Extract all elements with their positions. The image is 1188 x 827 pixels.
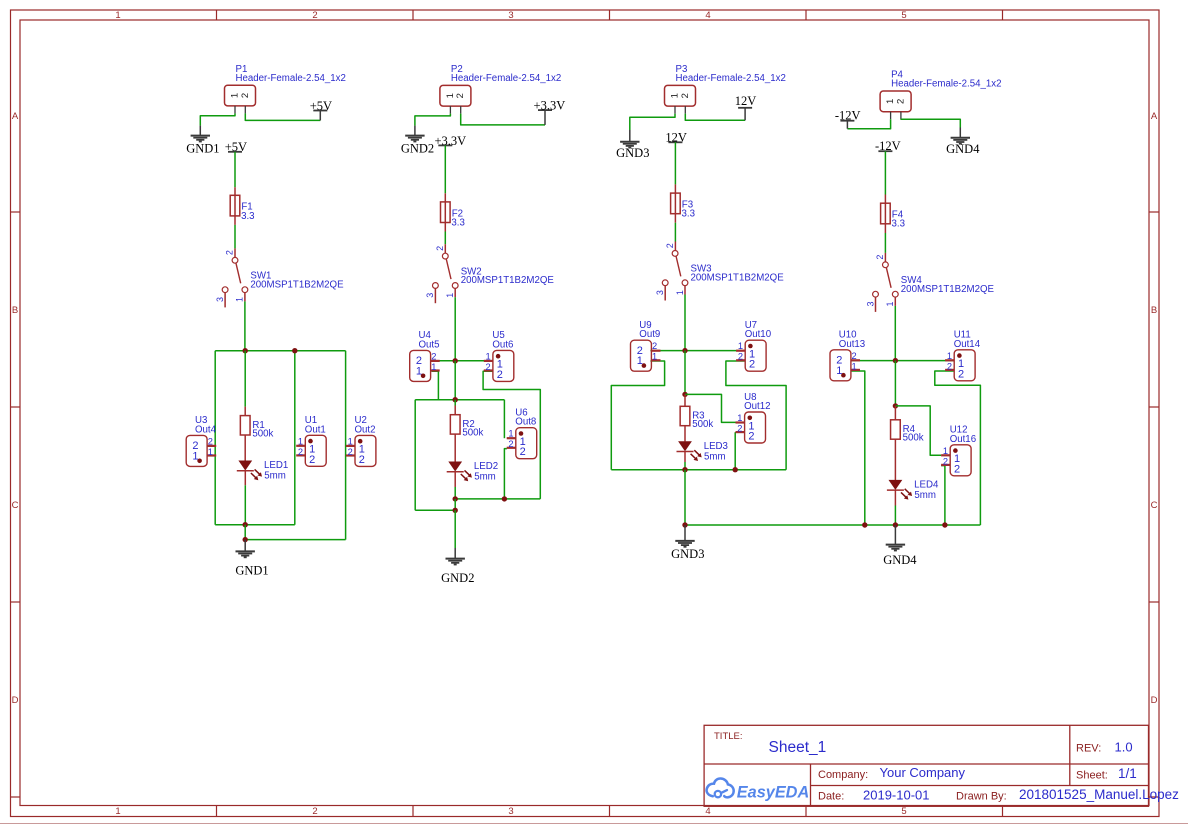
ground GND4 bottom flag <box>894 525 896 544</box>
wire U7 pin2 loop right down to bottom row <box>726 361 786 470</box>
junction bottom row 2 <box>243 537 248 542</box>
svg-text:C: C <box>12 500 19 511</box>
svg-text:3: 3 <box>425 293 435 298</box>
svg-text:A: A <box>12 111 19 122</box>
wire P4 pin2 to GND4 <box>901 119 960 127</box>
svg-text:200MSP1T1B2M2QE: 200MSP1T1B2M2QE <box>691 272 785 283</box>
svg-text:1: 1 <box>675 290 685 295</box>
wire row B to U6 pin1 <box>503 400 505 439</box>
junction row A column 2 <box>453 358 458 363</box>
wire F1 to SW1 <box>234 225 236 249</box>
title block outline <box>704 725 1148 806</box>
svg-text:2: 2 <box>520 446 526 458</box>
svg-text:2: 2 <box>738 352 743 362</box>
LED LED2 5mm <box>448 462 462 472</box>
svg-text:2: 2 <box>508 439 513 449</box>
pin wire into F4 <box>884 195 886 204</box>
pin wire out of F1 <box>234 216 236 225</box>
wire LED3 to bottom row <box>684 462 686 470</box>
junction node row A at R1 branch <box>243 348 248 353</box>
wire shared ground row to column 4 <box>685 524 980 526</box>
wire +3.3V to F2 <box>444 145 446 193</box>
svg-text:500k: 500k <box>462 428 483 439</box>
wire U5 pin2 loop to right vertical <box>483 371 540 499</box>
svg-text:GND2: GND2 <box>441 571 474 585</box>
svg-text:5mm: 5mm <box>704 451 726 462</box>
pin wire into R3 <box>684 394 686 406</box>
junction bottom row at center column 3 <box>682 467 687 472</box>
power +5V flag right <box>319 111 321 121</box>
svg-text:3: 3 <box>508 806 513 817</box>
svg-text:Header-Female-2.54_1x2: Header-Female-2.54_1x2 <box>236 73 346 84</box>
svg-text:2: 2 <box>312 806 317 817</box>
pin wire below LED1 <box>244 471 246 486</box>
svg-text:2: 2 <box>748 431 754 443</box>
title block divider logo cell <box>810 764 812 806</box>
pin wire below SW4 pin 1 <box>894 297 896 306</box>
wire U4 pin1 down to row B <box>432 371 439 399</box>
svg-text:2: 2 <box>497 369 503 381</box>
fuse F3 3.3 <box>674 193 676 214</box>
wire +5V to F1 <box>234 152 236 187</box>
wire node row A column 4 <box>851 360 954 362</box>
svg-text:3: 3 <box>655 290 665 295</box>
svg-text:2: 2 <box>852 351 857 361</box>
svg-text:1: 1 <box>235 297 245 302</box>
frame row letters right <box>1151 111 1158 706</box>
svg-text:GND2: GND2 <box>401 141 434 155</box>
resistor R4 500k <box>891 420 901 439</box>
svg-text:500k: 500k <box>252 429 273 440</box>
pin wire into R2 <box>454 406 456 415</box>
wire left loop vertical <box>214 351 216 525</box>
power -12V flag feeding F4 <box>878 150 892 152</box>
wire bottom row 2 column 2 <box>415 509 455 511</box>
svg-text:GND1: GND1 <box>186 141 219 155</box>
wire SW4 pin1 down to node row A <box>894 306 896 361</box>
ground GND3 bottom flag <box>684 525 686 541</box>
wire SW2 pin1 down to node row A <box>454 297 456 361</box>
junction shared row at U12 branch <box>942 522 947 527</box>
pin wire into SW2 pin 2 <box>444 244 446 253</box>
pin wire into R1 <box>244 407 246 416</box>
wire center down to shared ground row <box>684 470 686 525</box>
svg-text:1: 1 <box>943 446 948 456</box>
LED LED1 5mm <box>238 461 252 471</box>
power +3.3V flag right <box>544 110 546 125</box>
wire U6 pin2 down to bottom row <box>504 449 507 499</box>
svg-text:GND3: GND3 <box>671 547 704 561</box>
svg-text:1: 1 <box>115 10 120 21</box>
pin wire R3 to LED3 <box>684 426 686 442</box>
junction bottom row at center <box>453 496 458 501</box>
frame row ticks right <box>1149 212 1159 797</box>
svg-text:Out12: Out12 <box>744 401 770 412</box>
frame column numbers top <box>115 10 906 21</box>
svg-text:200MSP1T1B2M2QE: 200MSP1T1B2M2QE <box>901 284 995 295</box>
wire F2 to SW2 <box>444 232 446 245</box>
svg-text:2: 2 <box>680 93 691 98</box>
svg-text:2: 2 <box>947 361 952 371</box>
svg-text:4: 4 <box>705 806 710 817</box>
pin wire below SW2 pin 1 <box>454 288 456 297</box>
svg-text:1: 1 <box>852 361 857 371</box>
LED LED4 5mm <box>889 480 903 490</box>
wire center to bottom row 2 <box>244 525 246 540</box>
svg-text:D: D <box>12 695 19 706</box>
junction row B column 2 <box>453 397 458 402</box>
switch SW4 200MSP1T1B2M2QE <box>883 262 889 268</box>
junction row A column 3 <box>682 348 687 353</box>
svg-text:TITLE:: TITLE: <box>714 731 743 742</box>
svg-text:1: 1 <box>885 301 895 306</box>
svg-text:A: A <box>1151 111 1158 122</box>
junction node row A at U1 branch <box>292 348 297 353</box>
svg-text:Out4: Out4 <box>195 424 217 435</box>
svg-text:2: 2 <box>298 447 303 457</box>
pin wire into F3 <box>674 184 676 193</box>
svg-text:+3.3V: +3.3V <box>434 134 466 148</box>
wire -12V to F4 <box>884 151 886 194</box>
frame column ticks bottom <box>217 806 1003 817</box>
wire row A down to R3 junction <box>684 351 686 395</box>
pin wire R1 to LED1 <box>244 435 246 461</box>
svg-text:5mm: 5mm <box>474 472 496 483</box>
title block divider row1 <box>704 763 1148 765</box>
svg-text:Out1: Out1 <box>305 424 326 435</box>
switch SW2 200MSP1T1B2M2QE <box>442 253 448 259</box>
wire P1 pin2 to +5V <box>245 113 320 120</box>
junction bottom row at U8 branch <box>733 467 738 472</box>
wire P4 pin1 to -12V <box>847 119 890 129</box>
svg-text:2: 2 <box>652 341 657 351</box>
wire P2 pin2 to +3.3V <box>461 114 545 125</box>
svg-text:GND4: GND4 <box>946 142 980 156</box>
svg-text:Out14: Out14 <box>954 339 981 350</box>
wire row A down to R4 junction <box>894 361 896 406</box>
ground GND3 top flag <box>629 130 631 142</box>
wire junction to U12 pin1 <box>895 406 941 455</box>
svg-text:1: 1 <box>508 429 513 439</box>
pin wire below LED4 <box>894 490 896 505</box>
svg-text:2: 2 <box>737 424 742 434</box>
wire left loop vertical column 2 <box>414 400 416 511</box>
pin wire into SW1 pin 2 <box>234 248 236 257</box>
wire U2 branch vertical <box>345 351 347 540</box>
svg-text:B: B <box>12 305 18 316</box>
svg-text:1: 1 <box>115 806 120 817</box>
pin wire R4 to LED4 <box>894 439 896 480</box>
svg-text:Out13: Out13 <box>839 339 865 350</box>
svg-text:2: 2 <box>455 93 466 98</box>
pin wire into F2 <box>444 193 446 202</box>
svg-text:2: 2 <box>312 10 317 21</box>
svg-text:-12V: -12V <box>875 139 901 153</box>
svg-text:1: 1 <box>947 351 952 361</box>
wire row A junction down to row B <box>454 361 456 400</box>
svg-text:2: 2 <box>895 99 906 104</box>
junction at R3 top column 3 <box>682 392 687 397</box>
svg-text:1: 1 <box>431 362 436 372</box>
svg-text:Out8: Out8 <box>515 417 536 428</box>
pin wire into SW4 pin 2 <box>884 253 886 262</box>
svg-text:1.0: 1.0 <box>1115 740 1133 755</box>
pin wire below LED3 <box>684 452 686 462</box>
pin wire R2 to LED2 <box>454 434 456 462</box>
svg-text:Your Company: Your Company <box>880 765 966 780</box>
svg-text:Drawn By:: Drawn By: <box>956 791 1007 803</box>
wire row A to R1 <box>244 351 246 407</box>
svg-text:1: 1 <box>208 447 213 457</box>
ground GND1 top flag <box>199 126 201 136</box>
LED LED3 5mm <box>678 441 692 451</box>
svg-text:3: 3 <box>215 297 225 302</box>
wire junction to U8 pin1 <box>685 394 736 422</box>
title block divider row2 <box>811 785 1149 787</box>
svg-text:5mm: 5mm <box>914 490 936 501</box>
wire bottom row 2 column 1 <box>245 539 345 541</box>
svg-text:3.3: 3.3 <box>241 211 254 222</box>
pin wire out of F4 <box>884 224 886 233</box>
canvas bottom edge line <box>0 823 1188 825</box>
wire node row B column 2 <box>415 399 504 401</box>
svg-text:1: 1 <box>836 365 842 377</box>
wire SW3 pin1 down to node row A <box>684 295 686 351</box>
pin wire below SW1 pin 1 <box>244 293 246 302</box>
power 12V flag feeding F3 <box>668 141 682 143</box>
wire P3 pin1 to GND3 <box>630 114 675 130</box>
resistor R2 500k <box>450 415 460 434</box>
pin wire below SW3 pin 1 <box>684 286 686 295</box>
wire F3 to SW3 <box>674 223 676 242</box>
svg-text:2: 2 <box>225 250 235 255</box>
svg-text:1: 1 <box>192 450 198 462</box>
wire LED1 to bottom row <box>244 485 246 524</box>
wire node row A column 3 <box>650 350 745 352</box>
junction bottom row 2 column 2 <box>453 508 458 513</box>
svg-text:5: 5 <box>901 806 906 817</box>
svg-text:1: 1 <box>637 355 643 367</box>
wire bottom row 1 column 1 <box>215 524 295 526</box>
wire center to bottom row 2 column 2 <box>454 499 456 510</box>
junction shared row at U10 branch <box>862 522 867 527</box>
svg-text:2: 2 <box>958 368 964 380</box>
wire node row A column 1 <box>215 350 345 352</box>
frame row letters left <box>12 111 19 706</box>
svg-text:1: 1 <box>652 352 657 362</box>
switch SW1 200MSP1T1B2M2QE <box>232 257 238 263</box>
pin wire below LED2 <box>454 472 456 487</box>
svg-text:200MSP1T1B2M2QE: 200MSP1T1B2M2QE <box>461 275 555 286</box>
switch SW3 200MSP1T1B2M2QE <box>672 251 678 257</box>
svg-text:Out2: Out2 <box>355 424 376 435</box>
frame column numbers bottom <box>115 806 906 817</box>
pin wire into R4 <box>894 406 896 420</box>
ground GND2 top flag <box>414 126 416 136</box>
svg-text:Out10: Out10 <box>745 329 772 340</box>
svg-text:+5V: +5V <box>310 99 332 113</box>
svg-text:3.3: 3.3 <box>892 219 905 230</box>
junction shared row at GND3 <box>682 522 687 527</box>
ground GND1 bottom flag <box>244 540 246 552</box>
frame row ticks left <box>11 212 21 797</box>
svg-text:Sheet_1: Sheet_1 <box>769 739 827 756</box>
wire U12 pin2 down to shared ground row <box>941 466 945 525</box>
svg-text:2: 2 <box>431 351 436 361</box>
svg-text:1: 1 <box>486 351 491 361</box>
svg-text:2: 2 <box>240 93 251 98</box>
svg-text:2: 2 <box>943 456 948 466</box>
wire 12V to F3 <box>674 142 676 184</box>
wire F4 to SW4 <box>884 233 886 253</box>
svg-text:2: 2 <box>665 243 675 248</box>
svg-text:5mm: 5mm <box>264 471 286 482</box>
title block divider rev column <box>1069 725 1071 785</box>
svg-text:12V: 12V <box>665 130 687 144</box>
svg-text:+5V: +5V <box>225 140 247 154</box>
power +3.3V flag feeding F2 <box>438 144 452 146</box>
svg-text:Out5: Out5 <box>419 339 440 350</box>
svg-text:3: 3 <box>508 10 513 21</box>
wire bottom row column 3 <box>611 469 786 471</box>
svg-text:D: D <box>1151 695 1158 706</box>
svg-text:2: 2 <box>208 436 213 446</box>
svg-text:201801525_Manuel.Lopez: 201801525_Manuel.Lopez <box>1019 787 1179 802</box>
svg-text:2: 2 <box>359 454 365 466</box>
svg-text:3.3: 3.3 <box>682 209 695 220</box>
svg-text:2: 2 <box>954 463 960 475</box>
junction row A column 4 <box>893 358 898 363</box>
fuse F1 3.3 <box>234 195 236 216</box>
svg-text:3: 3 <box>865 301 875 306</box>
svg-text:Out6: Out6 <box>492 339 513 350</box>
svg-text:5: 5 <box>901 10 906 21</box>
pin wire out of F2 <box>444 223 446 232</box>
ground GND2 bottom flag <box>454 548 456 558</box>
svg-text:Header-Female-2.54_1x2: Header-Female-2.54_1x2 <box>451 73 561 84</box>
wire row B to R2 <box>454 400 456 406</box>
wire bottom row 1 column 2 <box>455 498 540 500</box>
fuse F2 3.3 <box>444 202 446 223</box>
svg-text:3.3: 3.3 <box>451 217 464 228</box>
svg-text:2019-10-01: 2019-10-01 <box>863 788 930 803</box>
EasyEDA logo <box>707 778 810 801</box>
wire down to GND2 <box>454 510 456 548</box>
wire node row A column 2 <box>432 360 493 362</box>
junction shared row at GND4 <box>893 522 898 527</box>
svg-text:1: 1 <box>737 413 742 423</box>
svg-text:+3.3V: +3.3V <box>534 99 566 113</box>
wire U9 pin1 loop left down to bottom row <box>611 361 664 470</box>
wire P1 pin1 to GND1 <box>200 113 235 125</box>
power 12V flag right <box>744 108 746 121</box>
svg-text:2: 2 <box>875 255 885 260</box>
pin wire out of F3 <box>674 214 676 223</box>
svg-text:B: B <box>1151 305 1157 316</box>
wire LED2 to bottom row <box>454 487 456 499</box>
svg-text:Header-Female-2.54_1x2: Header-Female-2.54_1x2 <box>891 79 1001 90</box>
svg-text:4: 4 <box>705 10 710 21</box>
wire SW1 pin1 down to node row A <box>244 301 246 350</box>
svg-text:EasyEDA: EasyEDA <box>737 784 809 802</box>
svg-text:Company:: Company: <box>818 769 868 781</box>
svg-text:12V: 12V <box>735 94 757 108</box>
junction bottom row at U6 branch <box>502 496 507 501</box>
pin wire into F1 <box>234 187 236 195</box>
wire P2 pin1 to GND2 <box>415 114 451 126</box>
svg-text:Header-Female-2.54_1x2: Header-Female-2.54_1x2 <box>676 73 786 84</box>
svg-text:200MSP1T1B2M2QE: 200MSP1T1B2M2QE <box>250 279 344 290</box>
wire P3 pin2 to 12V <box>685 114 745 121</box>
svg-text:1: 1 <box>445 293 455 298</box>
resistor R1 500k <box>240 416 250 435</box>
svg-text:1: 1 <box>738 341 743 351</box>
wire U10 pin1 down to shared ground row <box>851 371 865 525</box>
wire U11 pin2 loop right down to shared ground row <box>935 371 981 525</box>
power -12V flag left <box>846 121 848 129</box>
svg-text:Out9: Out9 <box>639 329 660 340</box>
svg-text:Date:: Date: <box>818 791 844 803</box>
fuse F4 3.3 <box>884 203 886 224</box>
wire U1 branch vertical <box>294 351 296 525</box>
junction at R4 top column 4 <box>893 403 898 408</box>
svg-text:2: 2 <box>486 362 491 372</box>
svg-text:1: 1 <box>348 436 353 446</box>
junction bottom row 1 <box>243 522 248 527</box>
svg-text:REV:: REV: <box>1076 743 1101 755</box>
svg-text:1: 1 <box>416 365 422 377</box>
frame column ticks top <box>217 10 1003 20</box>
svg-text:2: 2 <box>348 447 353 457</box>
wire U8 pin2 down to bottom row <box>734 433 737 470</box>
pin wire into SW3 pin 2 <box>674 242 676 251</box>
svg-text:1: 1 <box>298 436 303 446</box>
svg-text:GND3: GND3 <box>616 146 649 160</box>
ground GND4 top flag <box>959 128 961 138</box>
svg-text:Sheet:: Sheet: <box>1076 770 1108 782</box>
svg-text:1/1: 1/1 <box>1118 766 1137 781</box>
wire LED4 to shared ground row <box>894 506 896 526</box>
svg-text:C: C <box>1151 500 1158 511</box>
svg-text:Out16: Out16 <box>950 434 976 445</box>
svg-text:GND1: GND1 <box>235 563 268 577</box>
svg-text:2: 2 <box>435 246 445 251</box>
resistor R3 500k <box>680 406 690 425</box>
power +5V flag feeding F1 <box>228 151 242 153</box>
svg-text:GND4: GND4 <box>883 553 917 567</box>
svg-text:-12V: -12V <box>835 108 861 122</box>
svg-text:2: 2 <box>749 359 755 371</box>
svg-text:2: 2 <box>309 454 315 466</box>
svg-text:500k: 500k <box>903 433 924 444</box>
svg-text:500k: 500k <box>692 419 713 430</box>
